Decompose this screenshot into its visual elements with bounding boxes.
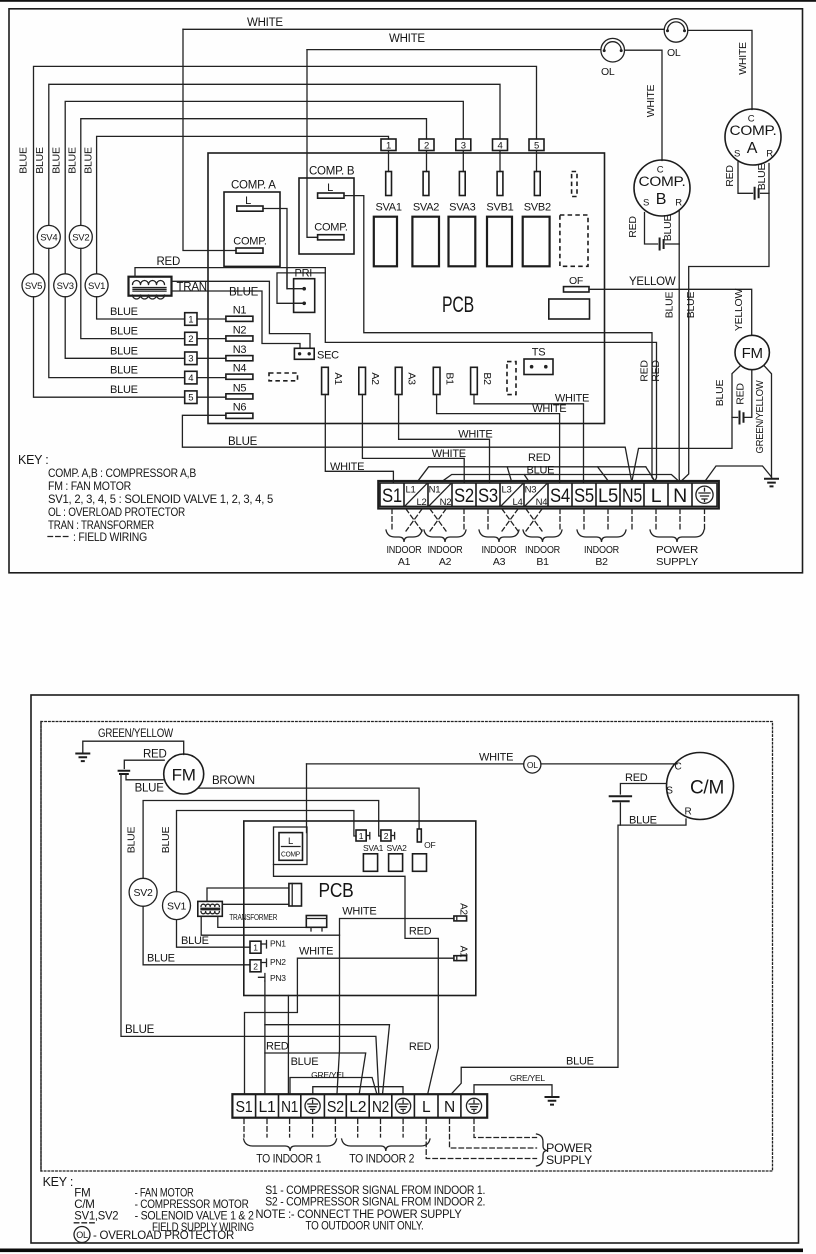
svg-text:BLUE: BLUE (527, 464, 555, 476)
wire box4 to N4 bar (197, 377, 226, 379)
svg-text:PCB: PCB (442, 292, 474, 317)
solenoid valve SV1 bottom (177, 811, 357, 892)
svg-text:WHITE: WHITE (247, 17, 283, 29)
wire RED tran primary (135, 268, 325, 277)
svg-text:N1: N1 (429, 485, 441, 496)
svg-text:TO INDOOR 1: TO INDOOR 1 (256, 1154, 321, 1166)
solenoid valve SV2 bottom (143, 801, 381, 879)
wire SV1 top run to connector 1 (97, 136, 389, 273)
wire red C/M S to capacitor (620, 784, 666, 795)
terminal L3/L4 (501, 484, 523, 507)
wire COMP.B blue R to N (678, 210, 680, 481)
transformer TRAN (129, 277, 172, 296)
svg-text:SV2: SV2 (72, 232, 89, 243)
terminal earth bottom (396, 1098, 411, 1113)
brace group B2 (577, 530, 626, 542)
svg-text:4: 4 (188, 373, 193, 384)
svg-text:WHITE: WHITE (432, 448, 466, 460)
svg-text:POWER: POWER (546, 1143, 592, 1155)
terminal earth (696, 486, 713, 503)
wire B2 to S5 (474, 395, 584, 483)
dashed bar spare horizontal (269, 373, 298, 381)
svg-text:- SOLENOID VALVE 1 & 2: - SOLENOID VALVE 1 & 2 (135, 1211, 254, 1223)
svg-text:RED: RED (157, 256, 181, 268)
relay block SVA2 (412, 217, 439, 267)
wire white W2 (307, 49, 601, 51)
svg-text:BLUE: BLUE (228, 436, 258, 448)
svg-text:L: L (288, 836, 293, 847)
power supply dashed routing (426, 1119, 536, 1159)
svg-text:NOTE :- CONNECT THE POWER SUPP: NOTE :- CONNECT THE POWER SUPPLY (256, 1209, 463, 1221)
connector PN3 (259, 974, 265, 982)
svg-text:COMP. B: COMP. B (309, 166, 355, 178)
wire blue long to N2 (121, 774, 379, 1094)
svg-text:INDOOR: INDOOR (387, 544, 423, 556)
svg-text:PCB: PCB (319, 880, 354, 902)
wire blue bridge N1-N2 (290, 1078, 377, 1094)
field wiring drops bottom (244, 1119, 403, 1137)
svg-text:A1: A1 (398, 556, 411, 568)
svg-text:L: L (245, 195, 251, 207)
svg-text:BLUE: BLUE (83, 147, 95, 174)
svg-text:WHITE: WHITE (645, 84, 657, 117)
svg-text:C/M: C/M (74, 1199, 94, 1211)
svg-text:POWER: POWER (656, 544, 699, 556)
pcb edge connector box 3 (185, 352, 197, 365)
svg-text:N5: N5 (622, 485, 642, 507)
svg-text:S2: S2 (327, 1099, 344, 1116)
svg-text:SV1,SV2: SV1,SV2 (74, 1211, 118, 1223)
compressor motor C/M (667, 753, 734, 820)
svg-text:L1: L1 (405, 485, 415, 496)
svg-text:R: R (685, 807, 692, 818)
output bar OF (564, 287, 590, 292)
wire box1 to N1 bar (197, 318, 226, 320)
wire white relay to OL to C/M (307, 763, 678, 765)
wire transformer to connector a (207, 888, 289, 901)
connector PRI (294, 279, 315, 313)
connector box 3 top (456, 139, 471, 151)
wire COMP.A L to PRI pin1 (263, 209, 294, 289)
wire box5 to N5 bar (197, 396, 226, 398)
brace POWER SUPPLY (537, 1134, 548, 1166)
svg-text:RED: RED (627, 216, 639, 238)
svg-text:BLUE: BLUE (67, 147, 79, 174)
svg-text:SVB2: SVB2 (524, 202, 551, 214)
svg-text:N4: N4 (233, 363, 247, 375)
wire SV5 top run to connector 5 (34, 66, 537, 273)
output bar B1 (433, 367, 440, 394)
wire SV3 top run to connector 3 (65, 101, 463, 273)
svg-text:RED: RED (409, 1041, 432, 1053)
svg-text:BLUE: BLUE (125, 1024, 155, 1036)
pcb edge connector box 5 (185, 391, 197, 404)
bottom diagram inner dotted border (41, 722, 773, 1172)
brace group A2 (424, 530, 466, 542)
wire box1 to fuse SV (388, 151, 390, 172)
wire tran secondary upper to SEC (172, 281, 311, 348)
pcb edge connector box 4 (185, 371, 197, 384)
wire green/yellow FM to ground (83, 741, 184, 754)
svg-text:RED: RED (409, 926, 432, 938)
wire white A1 to S1 (245, 958, 454, 1093)
wire COMP.B L to terminal L (red) (344, 196, 655, 482)
brace group B1 (523, 530, 562, 542)
svg-text:OL: OL (667, 47, 681, 59)
wire yellow OF to FM (589, 289, 752, 335)
svg-text:RED: RED (734, 383, 746, 405)
svg-text:A1: A1 (458, 946, 469, 958)
svg-text:TRAN: TRAN (177, 282, 207, 294)
terminal N3/N4 (525, 484, 547, 507)
svg-text:PN2: PN2 (270, 957, 286, 967)
svg-text:L: L (422, 1099, 431, 1116)
terminal bar N1 (226, 316, 253, 321)
svg-text:S1 - COMPRESSOR SIGNAL FROM IN: S1 - COMPRESSOR SIGNAL FROM INDOOR 1. (265, 1185, 485, 1197)
capacitor C/M (610, 796, 631, 801)
svg-text:WHITE: WHITE (342, 906, 376, 918)
page top edge line (0, 0, 816, 2)
svg-text:2: 2 (384, 831, 389, 841)
svg-text:L4: L4 (512, 497, 522, 508)
pcb edge connector box 2 (185, 332, 197, 345)
PCB board outline (208, 153, 605, 424)
svg-text:N: N (444, 1099, 455, 1116)
wire white2 branch to COMP.B coil (307, 50, 318, 238)
terminal strip inner cells (380, 483, 717, 506)
capacitor FM bottom (119, 771, 130, 774)
svg-text:INDOOR: INDOOR (584, 544, 620, 556)
wire FM green/yellow to ground (764, 366, 772, 478)
fan motor FM bottom (164, 754, 204, 794)
field wiring crossed drops (406, 509, 542, 531)
svg-text:N5: N5 (233, 382, 247, 394)
wire transformer to connector b (218, 916, 306, 927)
svg-text:S2: S2 (454, 485, 474, 507)
relay block SVB1 (487, 217, 512, 267)
svg-text:A1: A1 (332, 372, 344, 385)
wire SV4 top run to connector 4 (49, 84, 500, 225)
output bar A3 (395, 367, 402, 394)
brace group A1 (386, 530, 422, 542)
svg-text:BLUE: BLUE (291, 1056, 319, 1068)
wire N1 drop (287, 996, 289, 1094)
terminal bar N5 (226, 394, 253, 399)
connector 1 bottom (356, 830, 366, 841)
svg-text:COMP. A,B : COMPRESSOR A,B: COMP. A,B : COMPRESSOR A,B (48, 466, 196, 480)
svg-text:S: S (643, 198, 649, 209)
pcb edge connector box 1 (185, 313, 197, 326)
svg-text:L: L (327, 182, 333, 194)
wire box3 to N3 bar (197, 357, 226, 359)
svg-text:S: S (666, 786, 673, 797)
dashed spare fuse (572, 172, 577, 197)
wire box5 to fuse SV (536, 151, 538, 172)
output bar A1 (454, 956, 467, 961)
svg-text:RED: RED (143, 749, 167, 761)
wire SV4 bottom run to box 4 (49, 248, 185, 377)
wire PRI pin1 junction (286, 268, 288, 289)
svg-text:SV1: SV1 (167, 900, 187, 912)
connector box 1 top (381, 139, 396, 151)
wire SV5 bottom run to box 5 (34, 297, 185, 397)
wire tran secondary lower to SEC (172, 291, 301, 348)
svg-text:2: 2 (188, 334, 193, 345)
svg-text:L5: L5 (598, 485, 618, 507)
compressor motor COMP.B (634, 160, 690, 216)
svg-text:BLUE: BLUE (160, 827, 172, 854)
svg-text:BLUE: BLUE (110, 365, 138, 377)
terminal bar N2 (226, 336, 253, 341)
wire SV2 bottom run to box 2 (81, 248, 185, 338)
top diagram outer border (9, 9, 803, 573)
svg-text:- OVERLOAD PROTECTOR: - OVERLOAD PROTECTOR (93, 1230, 234, 1242)
svg-text:INDOOR: INDOOR (428, 544, 464, 556)
wire white A2 to S2 (337, 919, 454, 1094)
svg-text:RED: RED (650, 360, 662, 382)
wire PN3 to L1 (264, 981, 266, 1094)
compressor relay box L COMP (274, 827, 308, 865)
relay squares bottom (363, 854, 377, 872)
svg-text:WHITE: WHITE (330, 461, 364, 473)
terminal L1/L2 (405, 484, 427, 507)
terminal bar N3 (226, 356, 253, 361)
svg-text:OF: OF (424, 840, 435, 850)
svg-text:BLUE: BLUE (110, 345, 138, 357)
ground symbol bottom left (76, 754, 89, 762)
svg-text:BROWN: BROWN (212, 775, 255, 787)
svg-text:L2: L2 (416, 497, 426, 508)
transformer bottom diagram (198, 901, 223, 916)
wire L feed vertical to terminal L (325, 268, 656, 482)
svg-text:N3: N3 (233, 344, 247, 356)
terminal bar N6 (226, 413, 253, 418)
svg-text:N2: N2 (440, 497, 452, 508)
svg-text:BLUE: BLUE (566, 1055, 594, 1067)
svg-text:SUPPLY: SUPPLY (546, 1155, 593, 1167)
terminal bar N4 (226, 374, 253, 379)
dashed spare relay (560, 215, 588, 266)
svg-text:BLUE: BLUE (110, 306, 138, 318)
wire COMP.A red S (738, 162, 753, 193)
svg-text:BLUE: BLUE (629, 815, 657, 827)
connector box 5 top (529, 139, 544, 151)
wire red bridge L1-L2 (265, 1053, 366, 1093)
svg-text:C: C (675, 762, 682, 773)
fuse element SVA1 (386, 172, 392, 196)
red bus L1-L3-L5-L (418, 467, 655, 482)
capacitor COMP.A (755, 188, 759, 199)
svg-text:GREEN/YELLOW: GREEN/YELLOW (754, 380, 766, 453)
svg-text:N6: N6 (233, 402, 247, 414)
svg-text:FM : FAN MOTOR: FM : FAN MOTOR (48, 479, 132, 493)
svg-text:1: 1 (253, 943, 258, 953)
svg-text:N1: N1 (281, 1099, 298, 1116)
svg-text:SV1, 2, 3, 4, 5 : SOLENOID VAL: SV1, 2, 3, 4, 5 : SOLENOID VALVE 1, 2, 3… (48, 492, 274, 506)
ground symbol top diagram (765, 479, 778, 487)
wire white OL2 to COMP.B (625, 50, 662, 160)
svg-text:RED: RED (266, 1041, 289, 1053)
svg-text:B1: B1 (536, 556, 549, 568)
connector 2 bottom (381, 830, 391, 841)
svg-text:BLUE: BLUE (714, 380, 726, 407)
svg-text:2: 2 (253, 961, 258, 971)
terminal earth bottom (466, 1098, 481, 1113)
output bar A2 (454, 916, 467, 921)
svg-text:SVA1: SVA1 (363, 843, 384, 853)
svg-text:B: B (656, 191, 666, 208)
connector box 4 top (493, 139, 508, 151)
svg-text:WHITE: WHITE (299, 946, 333, 958)
connector box 2 top (419, 139, 434, 151)
svg-text:SVA2: SVA2 (413, 202, 439, 214)
wire earth cell to ground (706, 466, 772, 481)
svg-text:1: 1 (188, 314, 193, 325)
wire red FM to capacitor (124, 760, 164, 768)
terminal strip outer (378, 481, 719, 509)
svg-text:S4: S4 (550, 485, 570, 507)
svg-text:GRE/YEL: GRE/YEL (510, 1073, 546, 1083)
connector tall pcb (289, 884, 302, 907)
connector PN1 (250, 941, 261, 953)
brace group SUPPLY (650, 530, 704, 542)
svg-text:OF: OF (569, 275, 583, 287)
svg-text:SVA1: SVA1 (375, 202, 401, 214)
overload protector OL2 (601, 38, 625, 62)
svg-text:B2: B2 (481, 372, 493, 385)
svg-text:A2: A2 (458, 903, 469, 915)
output bar B2 (471, 367, 478, 394)
dashed bar spare vertical (507, 362, 516, 395)
fan motor FM (735, 335, 769, 369)
svg-text:OL: OL (76, 1230, 88, 1240)
svg-text:COMP.: COMP. (730, 123, 777, 138)
svg-text:COMP.: COMP. (639, 174, 686, 189)
svg-text:RED: RED (724, 165, 736, 187)
svg-text:SUPPLY: SUPPLY (656, 556, 698, 568)
svg-text:N: N (673, 485, 687, 507)
wire blue FM (126, 774, 165, 780)
wire SV1 bottom run to box 1 (97, 297, 185, 319)
connector small pcb (306, 916, 326, 928)
wire transformer to connector a2 (222, 903, 289, 905)
svg-text:COMP. A: COMP. A (231, 180, 276, 192)
wire SV2 top run to connector 2 (81, 119, 427, 226)
terminal N1/N2 (429, 484, 451, 507)
wire relay red to terminal L (274, 865, 439, 1094)
svg-text:YELLOW: YELLOW (733, 289, 745, 332)
solenoid valve SV4 (37, 225, 60, 248)
svg-text:R: R (675, 198, 682, 209)
svg-text:BLUE: BLUE (663, 292, 675, 319)
wire brown FM to OF (198, 788, 419, 828)
solenoid valve SV5 (22, 274, 45, 297)
connector PN2 (250, 960, 261, 972)
svg-text:S3: S3 (478, 485, 498, 507)
svg-text:BLUE: BLUE (34, 147, 46, 174)
wire COMP.B red S (645, 213, 658, 245)
svg-text:WHITE: WHITE (737, 42, 749, 75)
svg-text:L2: L2 (349, 1099, 366, 1116)
svg-text:RED: RED (528, 452, 551, 464)
solenoid valve SV2 (69, 225, 92, 248)
svg-text:S5: S5 (574, 485, 594, 507)
svg-text:SV2: SV2 (134, 887, 154, 899)
svg-text:BLUE: BLUE (685, 292, 697, 319)
svg-text:WHITE: WHITE (458, 428, 492, 440)
svg-text:YELLOW: YELLOW (629, 276, 676, 288)
connector TS (524, 359, 553, 375)
wire gre/yel earth to ground (474, 1085, 552, 1096)
svg-text:BLUE: BLUE (662, 215, 674, 242)
brace TO INDOOR 1 (244, 1139, 337, 1151)
wire FM blue to N5 (632, 366, 741, 482)
compressor motor COMP.A (725, 109, 781, 165)
svg-text:N4: N4 (536, 497, 548, 508)
overload protector OL1 (664, 19, 688, 43)
svg-text:S2 - COMPRESSOR SIGNAL FROM IN: S2 - COMPRESSOR SIGNAL FROM INDOOR 2. (265, 1197, 485, 1209)
wire FM red to capacitor (745, 370, 752, 418)
svg-text:BLUE: BLUE (181, 935, 209, 947)
wire A2 to S2 (362, 395, 464, 483)
relay box COMP.B (299, 178, 354, 254)
terminal earth bottom (305, 1098, 320, 1113)
svg-text:INDOOR: INDOOR (525, 544, 561, 556)
svg-text:COMP.: COMP. (233, 236, 267, 248)
PCB board bottom diagram (244, 821, 476, 996)
svg-text:BLUE: BLUE (135, 783, 165, 795)
svg-text:GREEN/YELLOW: GREEN/YELLOW (98, 728, 173, 740)
svg-text:BLUE: BLUE (126, 827, 138, 854)
svg-text:B1: B1 (444, 372, 456, 385)
svg-text:GRE/YEL: GRE/YEL (311, 1070, 347, 1080)
svg-text:3: 3 (188, 354, 193, 365)
wire white OL1 to COMP.A (688, 30, 752, 109)
svg-text:5: 5 (188, 393, 193, 404)
svg-text:FM: FM (172, 766, 196, 785)
svg-text:COMP.: COMP. (314, 222, 348, 234)
svg-text:A: A (747, 140, 758, 157)
svg-text:PN3: PN3 (270, 973, 286, 983)
svg-text:L3: L3 (501, 485, 511, 496)
svg-text:L: L (651, 485, 662, 507)
svg-text:N3: N3 (525, 485, 537, 496)
capacitor FM (740, 412, 744, 424)
wire blue C/M R to N (452, 819, 686, 1094)
svg-text:- FAN MOTOR: - FAN MOTOR (135, 1188, 194, 1200)
connector SEC (294, 348, 314, 359)
svg-text:TO INDOOR 2: TO INDOOR 2 (349, 1154, 414, 1166)
wire box2 to fuse SV (426, 151, 428, 172)
svg-text:WHITE: WHITE (479, 751, 513, 763)
solenoid valve SV1 (85, 274, 108, 297)
wire blue N6 to N5 (182, 415, 631, 481)
svg-text:- COMPRESSOR MOTOR: - COMPRESSOR MOTOR (135, 1199, 249, 1211)
fuse element SVA3 (459, 172, 465, 196)
wire B1 to S4 (437, 395, 560, 483)
svg-text:S: S (734, 149, 740, 160)
wire SV3 bottom run to box 3 (65, 297, 185, 359)
svg-text:PRI: PRI (295, 268, 313, 280)
svg-text:RED: RED (625, 772, 648, 784)
blue bus N1-N3-N (442, 475, 679, 482)
svg-text:OL: OL (527, 760, 538, 770)
svg-text:N2: N2 (372, 1099, 389, 1116)
OL symbol in key (74, 1227, 90, 1243)
wire box3 to fuse SV (462, 151, 464, 172)
fuse element SVB1 (497, 172, 503, 196)
svg-text:A3: A3 (406, 372, 418, 385)
